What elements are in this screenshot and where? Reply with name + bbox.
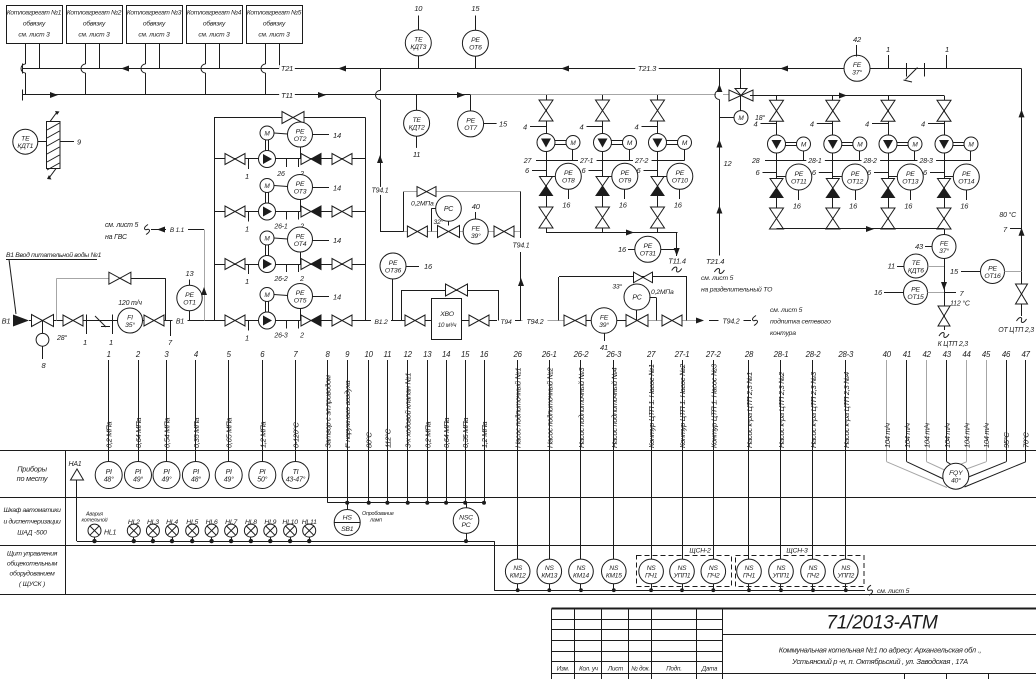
- svg-text:Т94.1: Т94.1: [513, 243, 530, 250]
- svg-text:10: 10: [414, 4, 423, 13]
- pump: [824, 135, 842, 153]
- svg-text:HL3: HL3: [147, 519, 159, 526]
- starter NS УПП2: [834, 559, 859, 584]
- svg-text:40°: 40°: [951, 477, 961, 485]
- svg-text:2: 2: [299, 276, 304, 283]
- svg-text:Насос подпиточный №4: Насос подпиточный №4: [610, 368, 619, 448]
- svg-text:104 т/ч: 104 т/ч: [883, 423, 892, 448]
- svg-text:46: 46: [1002, 350, 1011, 359]
- svg-text:ОТ7: ОТ7: [464, 125, 477, 132]
- svg-text:37°: 37°: [852, 69, 862, 77]
- svg-text:28-3: 28-3: [837, 350, 854, 359]
- svg-text:27-1: 27-1: [579, 158, 594, 165]
- svg-text:26-1: 26-1: [273, 224, 288, 231]
- riser to bypass: [403, 192, 405, 232]
- svg-text:Контур ЦТП 1. Насос №2: Контур ЦТП 1. Насос №2: [678, 363, 687, 448]
- svg-text:ОТ6: ОТ6: [469, 45, 482, 52]
- lamp HL9: [264, 524, 277, 537]
- lamp HL3: [146, 524, 159, 537]
- svg-text:Котлоагрегат №5: Котлоагрегат №5: [247, 10, 302, 17]
- svg-text:РЕ: РЕ: [675, 170, 684, 177]
- svg-text:PI: PI: [135, 469, 141, 476]
- svg-text:Кол. уч: Кол. уч: [579, 666, 599, 673]
- svg-text:Т21: Т21: [281, 64, 293, 73]
- svg-text:16: 16: [793, 202, 802, 211]
- sensor PE ОТ3: [274, 186, 288, 187]
- starter NS КМ14: [569, 559, 594, 584]
- check valve: [301, 315, 311, 326]
- title block bottom cells: [723, 673, 1036, 675]
- svg-text:HL2: HL2: [128, 519, 140, 526]
- svg-text:0,2 МПа: 0,2 МПа: [423, 422, 432, 448]
- check valve: [301, 154, 311, 165]
- tick 6: [589, 170, 603, 172]
- svg-text:обвязку: обвязку: [263, 20, 286, 28]
- svg-text:14: 14: [333, 293, 341, 302]
- svg-text:50°: 50°: [257, 476, 267, 484]
- bottom valve: [651, 207, 665, 218]
- svg-text:80°С: 80°С: [365, 432, 374, 448]
- motor M 18: [734, 111, 748, 125]
- svg-text:4: 4: [635, 123, 639, 132]
- svg-text:49°: 49°: [224, 476, 234, 484]
- pipe T21: [22, 64, 24, 74]
- ticks: [248, 321, 250, 331]
- svg-text:на разделительный ТО: на разделительный ТО: [701, 286, 773, 294]
- boiler unit box 4: [187, 6, 243, 44]
- svg-text:HS: HS: [343, 515, 353, 522]
- svg-text:HL10: HL10: [282, 519, 298, 526]
- svg-text:УПП1: УПП1: [772, 573, 790, 580]
- svg-text:37°: 37°: [939, 247, 949, 255]
- svg-text:см. лист 5: см. лист 5: [701, 275, 734, 282]
- top valve: [881, 100, 895, 111]
- svg-text:Насос подпиточный №3: Насос подпиточный №3: [577, 367, 586, 448]
- svg-text:0,2МПа: 0,2МПа: [411, 201, 434, 208]
- sensor PE ОТ8: [546, 176, 556, 178]
- bypass pipe B1: [56, 278, 58, 320]
- wire box4 to T21: [219, 43, 221, 69]
- svg-text:В 1.1: В 1.1: [170, 227, 185, 234]
- motor: [265, 245, 267, 256]
- valve after PC valve: [662, 315, 672, 326]
- svg-text:44: 44: [962, 350, 971, 359]
- svg-text:27: 27: [523, 158, 533, 165]
- orifice taps: [86, 315, 88, 335]
- ticks: [248, 264, 250, 274]
- valve before XBO: [405, 315, 415, 326]
- pump row 26-1: [214, 211, 366, 213]
- svg-text:РС: РС: [444, 206, 454, 213]
- wire box5 to T11: [265, 43, 267, 64]
- svg-text:26-1: 26-1: [541, 350, 557, 359]
- bottom valve: [881, 208, 895, 219]
- tick 1 on T21: [888, 55, 890, 69]
- svg-text:В1.2: В1.2: [374, 319, 388, 326]
- svg-text:КМ13: КМ13: [541, 573, 557, 580]
- T94.1 down riser: [520, 192, 522, 238]
- motor: [678, 136, 692, 150]
- panel SCHSN-2: [637, 556, 732, 587]
- pipe B1 main: [29, 320, 214, 322]
- wire box1 to T11: [25, 43, 27, 64]
- svg-text:11: 11: [888, 262, 895, 271]
- svg-text:27-2: 27-2: [705, 350, 722, 359]
- sensor PE ОТ4: [274, 238, 288, 239]
- bottom valve: [826, 208, 840, 219]
- CTP23 pump branch 28-3: [944, 96, 946, 136]
- control valve 28: [32, 315, 43, 327]
- svg-text:16: 16: [849, 202, 858, 211]
- sensor PE ОТ13: [888, 176, 898, 178]
- svg-text:см. лист 5: см. лист 5: [105, 222, 139, 229]
- svg-text:УПП2: УПП2: [836, 573, 854, 580]
- svg-text:Котлоагрегат №1: Котлоагрегат №1: [7, 10, 62, 17]
- PC pressure tap: [649, 297, 656, 299]
- CTP1 pump header: [546, 232, 678, 234]
- wire box1 to T21: [39, 43, 41, 69]
- pump row 26-2: [214, 264, 366, 266]
- svg-text:48°: 48°: [104, 476, 114, 484]
- flow meter FE 37 main: [844, 55, 870, 81]
- suction valve: [225, 206, 235, 217]
- starter NS ПЧ1: [737, 559, 762, 584]
- svg-text:РС: РС: [632, 295, 642, 302]
- svg-text:Котлоагрегат №4: Котлоагрегат №4: [187, 10, 242, 17]
- svg-text:ОТ ЦТП 2,3: ОТ ЦТП 2,3: [998, 327, 1034, 334]
- svg-text:112°С: 112°С: [383, 428, 392, 448]
- table row lines: [0, 450, 1036, 452]
- svg-text:ТЕ: ТЕ: [912, 260, 921, 267]
- svg-text:40: 40: [883, 350, 892, 359]
- svg-text:32°: 32°: [434, 218, 444, 226]
- tick 6: [930, 172, 944, 174]
- check valve: [540, 177, 553, 187]
- svg-text:PI: PI: [163, 469, 169, 476]
- signal line 28 ticks: [765, 160, 971, 162]
- svg-text:1: 1: [245, 172, 249, 181]
- svg-text:ОТ9: ОТ9: [618, 178, 631, 185]
- svg-text:( ЩУСК ): ( ЩУСК ): [19, 581, 45, 588]
- svg-text:0,54 МПа: 0,54 МПа: [163, 418, 172, 448]
- valve after FI: [144, 315, 154, 326]
- svg-text:26-3: 26-3: [605, 350, 622, 359]
- lamp HL2: [127, 524, 140, 537]
- svg-text:М: М: [570, 140, 576, 147]
- boiler unit box 5: [247, 6, 303, 44]
- svg-text:0,35 МПа: 0,35 МПа: [461, 418, 470, 448]
- svg-text:Коммунальная котельная №1 по: Коммунальная котельная №1 по адресу: Арх…: [779, 646, 982, 655]
- lamp HL6: [205, 524, 218, 537]
- svg-text:11: 11: [413, 150, 420, 159]
- svg-text:42: 42: [853, 35, 862, 44]
- svg-text:Изм.: Изм.: [557, 666, 569, 673]
- insulating joint on T21: [906, 63, 908, 77]
- PC valve on T94.2: [626, 315, 637, 327]
- svg-text:104 т/ч: 104 т/ч: [903, 423, 912, 448]
- svg-text:см. лист 5: см. лист 5: [770, 307, 803, 314]
- gauge PI 48°: [182, 462, 209, 489]
- svg-text:40: 40: [472, 202, 481, 211]
- top valve: [596, 100, 610, 111]
- svg-text:28: 28: [751, 158, 760, 165]
- svg-text:27-2: 27-2: [634, 158, 649, 165]
- svg-text:1: 1: [245, 334, 249, 343]
- gauge PI 49°: [153, 462, 180, 489]
- starter NS УПП1: [769, 559, 794, 584]
- svg-text:РЕ: РЕ: [851, 171, 860, 178]
- svg-text:1: 1: [245, 277, 249, 286]
- svg-text:УПП1: УПП1: [673, 573, 691, 580]
- svg-text:35°: 35°: [125, 321, 135, 329]
- label T94.2 to sheet 5: [709, 320, 751, 322]
- top valve: [826, 100, 840, 111]
- svg-text:NS: NS: [809, 565, 819, 572]
- motor: [797, 137, 811, 151]
- svg-text:Насос к-ра ЦТП 2,3 №3: Насос к-ра ЦТП 2,3 №3: [809, 371, 818, 448]
- lamp HL11: [303, 524, 316, 537]
- svg-text:РЕ: РЕ: [794, 171, 803, 178]
- gauge TI 43-47°: [282, 462, 309, 489]
- svg-text:ТЕ: ТЕ: [412, 117, 421, 124]
- pipe T94.2: [521, 320, 566, 322]
- svg-text:ОТ36: ОТ36: [385, 267, 402, 274]
- svg-text:27-1: 27-1: [674, 350, 690, 359]
- sensor TE KDT6: [904, 254, 928, 278]
- sensor PE OT16: [981, 260, 1005, 284]
- svg-text:4: 4: [580, 123, 584, 132]
- svg-text:КМ12: КМ12: [510, 573, 526, 580]
- lamp HL4: [166, 524, 179, 537]
- CTP23 pump branch 28-2: [888, 96, 890, 136]
- svg-text:43: 43: [943, 350, 952, 359]
- tick 6: [763, 172, 777, 174]
- svg-text:14: 14: [333, 236, 341, 245]
- svg-text:39°: 39°: [471, 232, 481, 240]
- pump: [259, 256, 276, 273]
- svg-text:SB1: SB1: [341, 526, 354, 533]
- starter NS ПЧ1: [639, 559, 664, 584]
- svg-text:1: 1: [109, 338, 113, 347]
- svg-text:РЕ: РЕ: [296, 290, 305, 297]
- pipe from CTP return: [1021, 69, 1023, 285]
- svg-text:ламп: ламп: [369, 518, 382, 524]
- gauge PI 49°: [215, 462, 242, 489]
- pipe B1.1 to sheet 5: [204, 230, 206, 321]
- controller PC 2: [624, 284, 650, 310]
- svg-text:14: 14: [442, 350, 451, 359]
- svg-text:33°: 33°: [612, 283, 622, 291]
- svg-text:обвязку: обвязку: [83, 20, 106, 28]
- tick 4: [817, 123, 833, 125]
- starter NS КМ12: [505, 559, 530, 584]
- sensor TE KDT3: [418, 16, 420, 30]
- svg-text:Т94.1: Т94.1: [372, 187, 389, 194]
- svg-text:ШАД -500: ШАД -500: [17, 530, 47, 537]
- pipe T11 gray extension: [471, 94, 716, 96]
- svg-text:М: М: [682, 140, 688, 147]
- svg-text:28-2: 28-2: [863, 158, 878, 165]
- svg-text:FI: FI: [127, 314, 133, 321]
- svg-text:14: 14: [333, 184, 341, 193]
- svg-text:NS: NS: [709, 565, 719, 572]
- svg-text:контура: контура: [770, 330, 796, 337]
- valve on B1: [63, 315, 73, 326]
- svg-text:26-2: 26-2: [273, 276, 288, 283]
- svg-text:В1 Ввод питательной воды №1: В1 Ввод питательной воды №1: [6, 251, 102, 259]
- tick 4: [761, 123, 777, 125]
- svg-text:КДТ3: КДТ3: [410, 44, 426, 51]
- svg-text:104 т/ч: 104 т/ч: [963, 423, 972, 448]
- sensor PE ОТ12: [833, 176, 843, 178]
- svg-text:NS: NS: [745, 565, 755, 572]
- svg-text:16: 16: [674, 201, 683, 210]
- svg-text:ОТ11: ОТ11: [791, 178, 807, 185]
- svg-text:15: 15: [471, 4, 480, 13]
- svg-text:26-2: 26-2: [573, 350, 590, 359]
- svg-text:16: 16: [874, 288, 883, 297]
- lamp HL8: [244, 524, 257, 537]
- svg-text:Котлоагрегат №2: Котлоагрегат №2: [67, 10, 122, 17]
- pump block frame: [214, 118, 216, 321]
- starter NS ПЧ2: [801, 559, 826, 584]
- pump: [259, 312, 276, 329]
- lamp HL1: [88, 524, 101, 537]
- svg-text:71/2013-АТМ: 71/2013-АТМ: [826, 613, 938, 634]
- svg-text:t° наружного воздуха: t° наружного воздуха: [343, 381, 352, 448]
- bottom valve: [539, 207, 553, 218]
- suction valve: [225, 259, 235, 270]
- svg-text:ОТ14: ОТ14: [958, 178, 975, 185]
- svg-text:27: 27: [646, 350, 656, 359]
- svg-text:4: 4: [921, 120, 925, 129]
- svg-text:112 °С: 112 °С: [950, 300, 971, 308]
- svg-text:общекотельным: общекотельным: [7, 560, 58, 568]
- CTP23 pump branch 28: [776, 96, 778, 136]
- svg-text:ОТ5: ОТ5: [294, 297, 307, 304]
- svg-text:28-2: 28-2: [805, 350, 822, 359]
- panel SCHSN-3: [736, 556, 865, 587]
- svg-text:11: 11: [384, 350, 392, 359]
- svg-text:HL6: HL6: [206, 519, 218, 526]
- motor: [853, 137, 867, 151]
- top valve: [539, 100, 553, 111]
- check valve: [938, 179, 951, 189]
- svg-text:ЩСН-3: ЩСН-3: [786, 548, 808, 555]
- tick 4: [587, 126, 603, 128]
- sensor PE ОТ9: [603, 176, 613, 178]
- svg-text:М: М: [627, 140, 633, 147]
- svg-text:ПЧ2: ПЧ2: [707, 573, 720, 580]
- svg-text:ПЧ1: ПЧ1: [743, 573, 756, 580]
- tick 6: [532, 170, 546, 172]
- starter NS ПЧ2: [701, 559, 726, 584]
- svg-text:Т94.2: Т94.2: [723, 319, 740, 326]
- bottom valve: [770, 208, 784, 219]
- top valve: [937, 100, 951, 111]
- bypass T94.2: [558, 277, 560, 321]
- svg-text:HL8: HL8: [245, 519, 257, 526]
- tick 6: [819, 172, 833, 174]
- valve return: [1016, 284, 1028, 294]
- svg-text:№ док.: № док.: [631, 666, 650, 673]
- motor: [265, 302, 267, 313]
- svg-text:HL4: HL4: [166, 519, 178, 526]
- svg-text:Щит управления: Щит управления: [7, 551, 58, 558]
- motor: [623, 136, 637, 150]
- svg-text:ОТ31: ОТ31: [640, 251, 657, 258]
- svg-text:48°: 48°: [191, 476, 201, 484]
- svg-text:104 т/ч: 104 т/ч: [923, 423, 932, 448]
- XBO bypass: [401, 290, 403, 321]
- svg-text:ЩСН-2: ЩСН-2: [689, 548, 711, 555]
- svg-text:NS: NS: [678, 565, 688, 572]
- svg-text:ПЧ1: ПЧ1: [645, 573, 658, 580]
- lamp HL7: [225, 524, 238, 537]
- svg-text:Контур ЦТП 1. Насос №1: Контур ЦТП 1. Насос №1: [647, 364, 656, 448]
- svg-text:1: 1: [107, 350, 111, 359]
- svg-text:РЕ: РЕ: [185, 292, 194, 299]
- svg-text:13: 13: [186, 269, 195, 278]
- check valve: [596, 177, 609, 187]
- pipe T21.4: [719, 69, 721, 91]
- svg-text:10 м³/ч: 10 м³/ч: [438, 322, 457, 329]
- svg-text:43: 43: [915, 242, 924, 251]
- svg-text:РЕ: РЕ: [988, 265, 997, 272]
- pump: [259, 151, 276, 168]
- svg-text:0,35 МПа: 0,35 МПа: [192, 418, 201, 448]
- svg-text:Т11.4: Т11.4: [668, 257, 686, 266]
- svg-text:оборудованием: оборудованием: [9, 570, 55, 578]
- pump: [649, 134, 667, 152]
- svg-text:ОТ13: ОТ13: [902, 178, 919, 185]
- svg-text:Насос подпиточный №2: Насос подпиточный №2: [545, 367, 554, 448]
- svg-text:HL9: HL9: [264, 519, 276, 526]
- svg-text:4: 4: [810, 120, 814, 129]
- svg-text:NS: NS: [777, 565, 787, 572]
- sensor PE OT15: [904, 281, 928, 305]
- svg-text:М: М: [801, 141, 807, 148]
- svg-text:см. лист 3: см. лист 3: [138, 32, 170, 39]
- title block: [552, 608, 1036, 610]
- sensor PE ОТ14: [944, 176, 954, 178]
- svg-text:Лист: Лист: [607, 666, 623, 673]
- starter NS КМ15: [602, 559, 627, 584]
- check valve: [882, 179, 895, 189]
- svg-text:28-1: 28-1: [807, 158, 822, 165]
- svg-text:М: М: [264, 292, 270, 299]
- svg-text:Т94: Т94: [500, 319, 512, 326]
- svg-text:26: 26: [513, 350, 523, 359]
- svg-text:ОТ16: ОТ16: [984, 273, 1001, 280]
- svg-text:В1: В1: [176, 319, 184, 326]
- check valve: [301, 259, 311, 270]
- svg-text:котельной: котельной: [82, 517, 108, 524]
- suction valve: [225, 154, 235, 165]
- controller NSC PC: [466, 503, 468, 508]
- gauge PI 49°: [125, 462, 152, 489]
- top valve: [770, 100, 784, 111]
- flue duct: [47, 122, 61, 169]
- svg-text:1: 1: [83, 338, 87, 347]
- svg-text:ТЕ: ТЕ: [414, 37, 423, 44]
- svg-text:подпитка сетевого: подпитка сетевого: [770, 318, 831, 326]
- svg-text:РЕ: РЕ: [296, 128, 305, 135]
- valve on recirculation row: [407, 226, 417, 237]
- svg-text:обвязку: обвязку: [143, 20, 166, 28]
- svg-text:70°С: 70°С: [1022, 432, 1031, 448]
- svg-text:Устьянский р -н, п. Октябрьс: Устьянский р -н, п. Октябрьский , ул. За…: [791, 657, 968, 666]
